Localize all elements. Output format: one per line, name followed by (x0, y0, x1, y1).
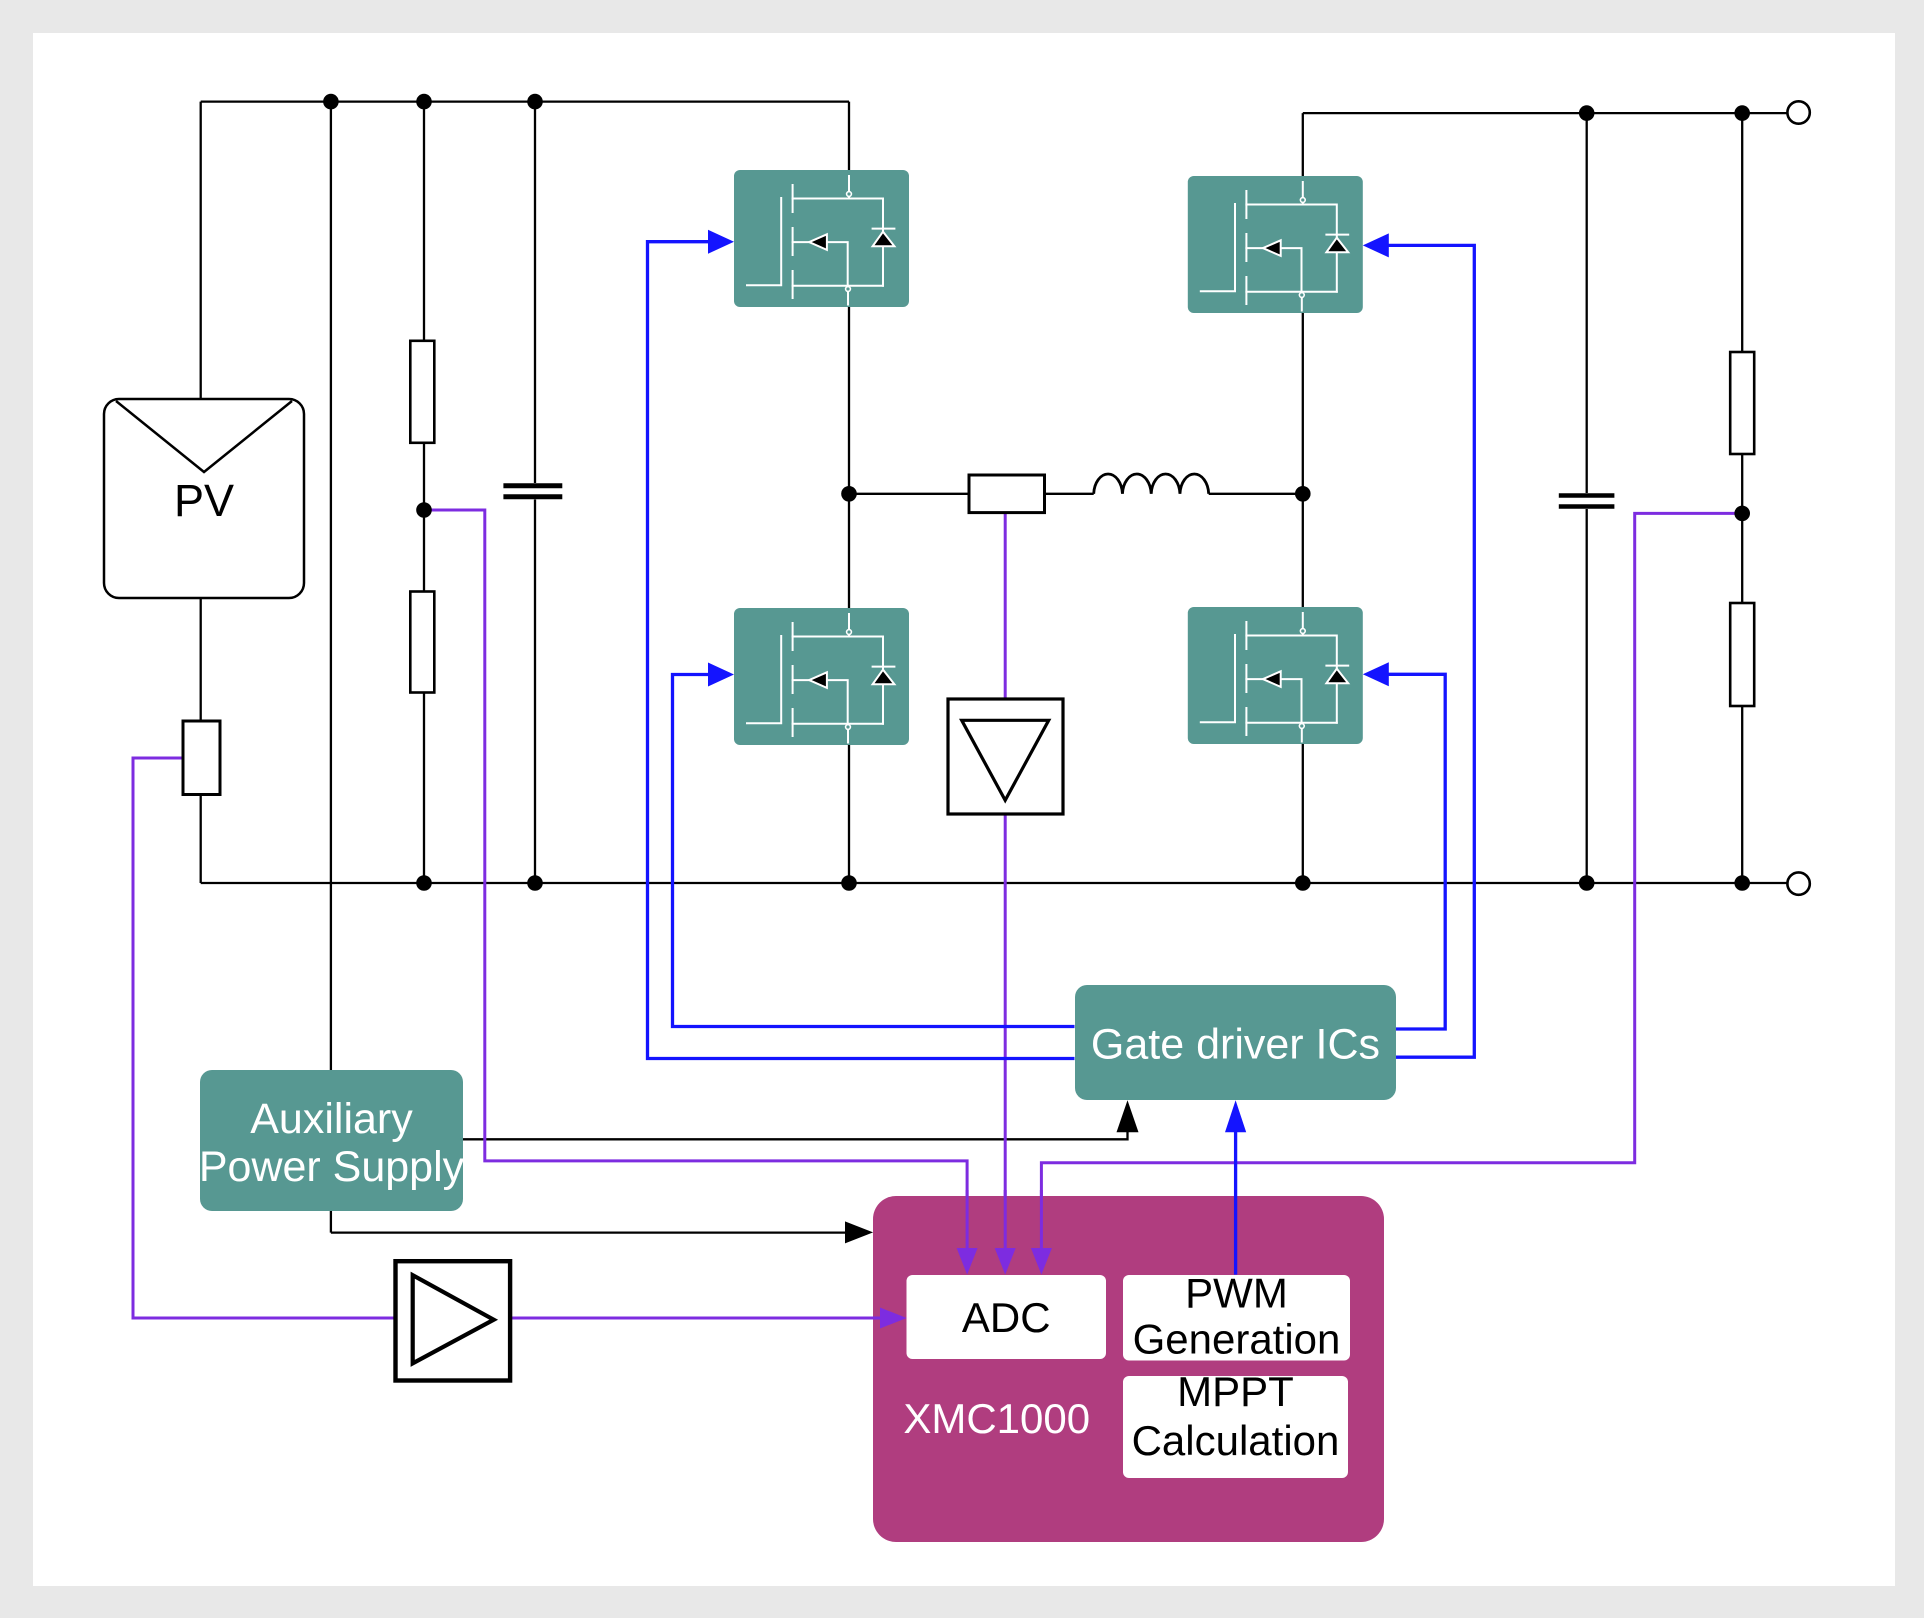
resistor R1 (input divider top) (410, 341, 434, 443)
wire PV voltage sense tail over XMC (violet) (966, 1190, 969, 1252)
node: bottom bus / right leg (1295, 875, 1311, 891)
PV panel box (104, 399, 304, 598)
wire input divider branch (423, 102, 425, 883)
MOSFET Q2 (bottom-left, with body diode) (734, 608, 909, 745)
arrow gate TL (blue, right) (708, 230, 734, 254)
svg-text:Gate driver ICs: Gate driver ICs (1091, 1021, 1380, 1069)
svg-text:PV: PV (174, 475, 234, 526)
block: ADC (907, 1275, 1107, 1359)
arrow PV current sense into ADC (violet, right) (880, 1308, 907, 1329)
wire output divider branch (1741, 113, 1743, 883)
node: bottom bus / output cap (1579, 875, 1595, 891)
arrow AC voltage sense into ADC (violet, down) (1031, 1248, 1052, 1275)
wire shunt current sense tail over XMC (violet) (1004, 1190, 1007, 1252)
resistor R3 (output divider top) (1730, 352, 1754, 454)
node: AC bus / output divider (1734, 105, 1750, 121)
node: output divider tap (AC voltage sense) (1734, 506, 1750, 522)
wire gate drive to top-right MOSFET (blue) (1381, 245, 1474, 1057)
wire PV current sense tail over XMC (violet) (865, 1317, 882, 1320)
wire output capacitor branch (bottom) (1586, 509, 1588, 883)
wire bridge output node to shunt (849, 493, 969, 495)
block: Auxiliary Power Supply (199, 1070, 465, 1211)
svg-text:Generation: Generation (1133, 1316, 1341, 1363)
shunt resistor Rs (969, 475, 1045, 513)
wire bottom return bus (201, 882, 1788, 884)
block: PWM Generation (1123, 1270, 1350, 1363)
node: top bus / divider (416, 94, 432, 110)
node: bottom bus / DC-link cap (527, 875, 543, 891)
MOSFET Q1 (top-left, with body diode) (734, 170, 909, 307)
wire left bridge leg (848, 102, 850, 883)
node: bottom bus / left leg (841, 875, 857, 891)
wire PV voltage sense (violet) (424, 510, 967, 1252)
terminal: AC output - (1787, 872, 1809, 894)
node: divider tap (PV voltage sense) (416, 502, 432, 518)
node: top bus / DC-link cap (527, 94, 543, 110)
wire aux supply feed (vertical) (330, 102, 332, 1233)
node: bottom bus / output divider (1734, 875, 1750, 891)
inductor L1 (1094, 474, 1209, 494)
svg-text:MPPT: MPPT (1177, 1368, 1294, 1415)
node: right bridge midpoint (1295, 486, 1311, 502)
svg-text:Auxiliary: Auxiliary (250, 1095, 413, 1143)
wire PWM to gate drivers (blue) (1234, 1132, 1237, 1275)
resistor R2 (input divider bottom) (410, 592, 434, 693)
capacitor C2 (output filter) (1559, 496, 1615, 507)
arrow PWM to gate drivers (blue, up) (1225, 1100, 1246, 1132)
node: left bridge midpoint (841, 486, 857, 502)
wire top AC bus (right) (1303, 112, 1788, 114)
svg-text:Power Supply: Power Supply (199, 1143, 465, 1191)
arrow shunt current sense into ADC (violet, down) (995, 1248, 1016, 1275)
wire AC voltage sense (violet) (1041, 513, 1742, 1252)
block: XMC1000 microcontroller (873, 1196, 1384, 1542)
amplifier U2 (current sense amp, pointing down) (948, 699, 1063, 814)
svg-text:Calculation: Calculation (1132, 1417, 1340, 1464)
wire gate drive to top-left MOSFET (blue) (648, 242, 1075, 1059)
fuse / current shunt F1 (183, 721, 220, 795)
terminal: AC output + (1787, 101, 1809, 123)
wire gate drive to bottom-right MOSFET (blue) (1381, 674, 1445, 1029)
wire shunt current sense (violet) (1004, 513, 1007, 1252)
arrow PV voltage sense into ADC (violet, down) (957, 1248, 978, 1275)
wire PV+ : PV top to top bus (200, 102, 202, 399)
wire inductor to right leg (1209, 493, 1303, 495)
wire AC voltage sense tail over XMC (violet) (1040, 1190, 1043, 1252)
arrow gate BL (blue, right) (708, 663, 734, 687)
MOSFET Q3 (top-right, with body diode) (1188, 176, 1363, 313)
wire aux supply to gate drivers (463, 1112, 1128, 1139)
wire top DC bus (left) (201, 100, 849, 102)
wire gate drive to bottom-left MOSFET (blue) (673, 675, 1075, 1027)
MOSFET Q4 (bottom-right, with body diode) (1188, 607, 1363, 744)
arrow gate TR (blue, left) (1363, 233, 1389, 257)
node: top bus / aux feed (323, 94, 339, 110)
block: MPPT Calculation (1123, 1368, 1348, 1478)
wire output capacitor branch (top) (1586, 113, 1588, 493)
wire shunt to inductor (1045, 493, 1094, 495)
node: bottom bus / divider (416, 875, 432, 891)
wire PV- : PV bottom through fuse to bottom bus (200, 598, 202, 883)
svg-text:PWM: PWM (1185, 1270, 1288, 1317)
wire aux feed to XMC1000 (331, 1231, 850, 1233)
capacitor C1 (DC link) (503, 486, 562, 497)
svg-text:XMC1000: XMC1000 (903, 1395, 1090, 1442)
resistor R4 (output divider bottom) (1730, 603, 1754, 706)
amplifier U3 (PV current amp, pointing right) (396, 1261, 511, 1380)
wire DC-link capacitor branch (bottom) (534, 500, 536, 884)
wire right bridge leg (1302, 113, 1304, 883)
arrow aux to gate drivers (black, up) (1117, 1100, 1139, 1132)
block: Gate driver ICs (1075, 985, 1396, 1100)
wire DC-link capacitor branch (top) (534, 102, 536, 483)
wire PV current sense via amplifier (violet) (133, 758, 885, 1318)
svg-text:ADC: ADC (962, 1294, 1051, 1341)
node: AC bus / output cap (1579, 105, 1595, 121)
arrow aux to XMC1000 (black, right) (845, 1221, 873, 1243)
arrow gate BR (blue, left) (1363, 662, 1389, 686)
